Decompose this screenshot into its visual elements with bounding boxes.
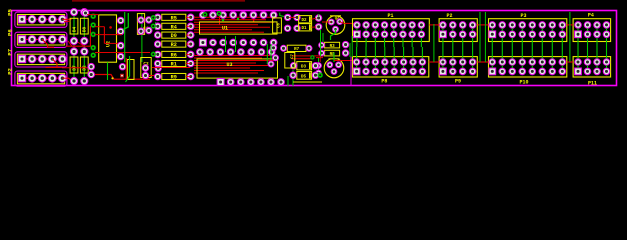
svg-text:P5: P5 [7,9,14,16]
svg-text:P9: P9 [455,78,461,84]
svg-text:U2: U2 [106,41,112,47]
svg-text:R1: R1 [171,62,177,68]
svg-text:U3: U3 [226,62,232,68]
svg-text:R5: R5 [171,15,177,21]
svg-text:C7: C7 [291,54,295,59]
svg-text:D2: D2 [301,19,307,23]
svg-text:D0: D0 [171,33,177,39]
svg-text:C6: C6 [278,23,282,29]
svg-text:P2: P2 [446,13,452,19]
svg-text:U1: U1 [222,26,228,32]
svg-text:P10: P10 [519,79,528,85]
svg-text:D5: D5 [301,75,307,79]
svg-text:R6: R6 [171,52,177,58]
svg-text:D3: D3 [301,66,307,70]
svg-text:R4: R4 [171,24,177,30]
svg-text:D8: D8 [83,27,88,33]
svg-text:R3: R3 [330,45,336,49]
svg-text:P4: P4 [588,13,594,19]
svg-text:P6: P6 [7,29,14,36]
svg-text:R9: R9 [171,75,177,81]
svg-text:P2: P2 [7,67,14,74]
svg-text:P7: P7 [7,49,14,56]
svg-text:R2: R2 [171,42,177,48]
svg-text:P11: P11 [588,80,597,86]
svg-text:P3: P3 [520,13,526,19]
svg-text:P1: P1 [387,13,393,19]
svg-text:R7: R7 [294,48,300,52]
svg-text:D4: D4 [72,27,77,33]
svg-text:D1: D1 [301,27,307,31]
svg-text:P8: P8 [381,78,387,84]
